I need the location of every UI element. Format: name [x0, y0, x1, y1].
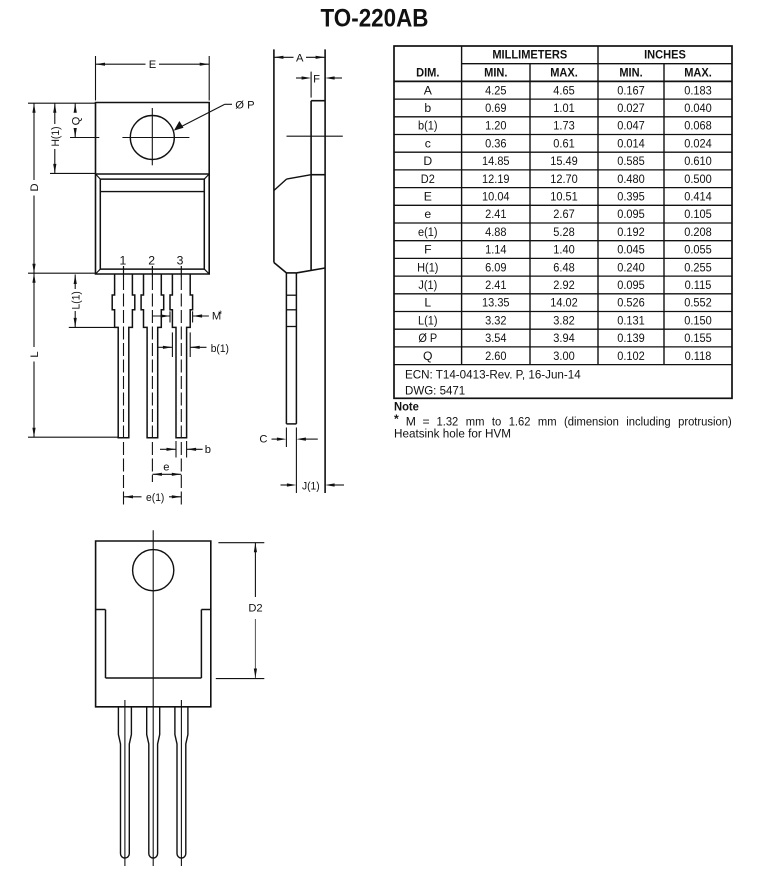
svg-text:3: 3	[177, 254, 184, 268]
svg-text:ECN: T14-0413-Rev. P, 16-Jun-1: ECN: T14-0413-Rev. P, 16-Jun-14	[405, 368, 581, 382]
svg-text:L: L	[424, 296, 431, 310]
svg-text:Q: Q	[70, 116, 82, 125]
svg-text:6.09: 6.09	[485, 260, 507, 274]
svg-text:1.73: 1.73	[553, 119, 575, 133]
back view: lead pin 1	[118, 707, 131, 858]
svg-text:0.102: 0.102	[617, 349, 645, 363]
svg-text:Heatsink hole for HVM: Heatsink hole for HVM	[394, 426, 511, 440]
svg-text:12.19: 12.19	[482, 172, 510, 186]
svg-text:e: e	[424, 207, 431, 221]
svg-text:D2: D2	[421, 172, 435, 186]
svg-text:0.118: 0.118	[685, 349, 712, 363]
front view: hole centerlines	[70, 108, 189, 165]
svg-text:3.54: 3.54	[485, 331, 507, 345]
side view: lead with crimp marks	[286, 273, 296, 424]
svg-text:0.105: 0.105	[684, 207, 712, 221]
svg-text:3.00: 3.00	[553, 349, 575, 363]
svg-text:*: *	[218, 309, 222, 320]
svg-text:0.040: 0.040	[684, 101, 712, 115]
svg-text:b: b	[424, 101, 431, 115]
svg-text:0.095: 0.095	[617, 278, 645, 292]
svg-text:0.500: 0.500	[684, 172, 712, 186]
dimension J(1) (lead to mounting plane)	[281, 480, 345, 492]
svg-text:0.024: 0.024	[684, 136, 712, 150]
dimension M (lead protrusion) with extension lines	[152, 309, 222, 322]
svg-text:3.82: 3.82	[553, 313, 575, 327]
svg-text:INCHES: INCHES	[644, 48, 686, 62]
dimension e(1) (pin 1 to pin 3)	[124, 492, 182, 504]
svg-text:e(1): e(1)	[146, 492, 165, 504]
svg-text:F: F	[313, 74, 320, 86]
svg-text:0.36: 0.36	[485, 136, 507, 150]
svg-text:0.045: 0.045	[617, 243, 645, 257]
svg-text:4.25: 4.25	[485, 83, 507, 97]
svg-text:0.131: 0.131	[617, 313, 645, 327]
svg-text:MAX.: MAX.	[550, 66, 578, 80]
svg-text:3.94: 3.94	[553, 331, 575, 345]
front view: lead pin 2 outline	[141, 274, 164, 438]
svg-text:L: L	[29, 351, 41, 357]
svg-text:0.068: 0.068	[684, 119, 712, 133]
side view: tab outline	[311, 49, 325, 493]
svg-text:2.92: 2.92	[553, 278, 575, 292]
dimension H(1), vertical	[50, 103, 62, 173]
svg-text:DWG: 5471: DWG: 5471	[405, 384, 465, 398]
svg-text:0.69: 0.69	[485, 101, 507, 115]
dimension E (package width) with extension lines	[96, 56, 210, 101]
svg-text:*: *	[394, 412, 399, 426]
back view: lead pin 3	[175, 707, 188, 858]
svg-text:H(1): H(1)	[50, 126, 62, 146]
dimension D (tab top to body bottom), vertical	[29, 103, 41, 273]
svg-text:4.65: 4.65	[553, 83, 575, 97]
svg-text:1: 1	[120, 254, 127, 268]
front view: lead pin 3 outline	[170, 274, 193, 438]
svg-text:c: c	[425, 136, 431, 150]
svg-text:14.85: 14.85	[482, 154, 510, 168]
svg-text:0.526: 0.526	[617, 296, 645, 310]
svg-text:12.70: 12.70	[550, 172, 578, 186]
left horizontal extension lines	[28, 103, 118, 437]
svg-text:e(1): e(1)	[418, 225, 438, 239]
svg-text:E: E	[424, 190, 432, 204]
dimension b(1) with extension lines	[158, 332, 229, 357]
svg-text:0.395: 0.395	[617, 190, 645, 204]
svg-text:Q: Q	[423, 349, 432, 363]
svg-text:mm: mm	[538, 415, 557, 429]
front view: body inner face with chamfered corners and ridge	[96, 174, 210, 274]
dimension L (body bottom to lead tip), vertical	[29, 273, 41, 437]
svg-text:2.67: 2.67	[553, 207, 575, 221]
svg-text:TO-220AB: TO-220AB	[321, 5, 429, 33]
svg-text:D2: D2	[248, 603, 262, 615]
svg-text:L(1): L(1)	[70, 291, 82, 310]
svg-text:0.014: 0.014	[617, 136, 645, 150]
svg-text:1.20: 1.20	[485, 119, 507, 133]
note line 1: M dimension explanation (justified)	[394, 412, 732, 429]
svg-text:MIN.: MIN.	[619, 66, 642, 80]
svg-text:0.095: 0.095	[617, 207, 645, 221]
svg-text:Ø P: Ø P	[235, 99, 254, 111]
dimension Q (tab top to hole center), vertical	[70, 103, 82, 137]
dimension L(1), vertical	[70, 275, 82, 328]
svg-text:F: F	[424, 243, 431, 257]
front view: pin centerlines (dashed)	[124, 266, 182, 505]
svg-text:0.480: 0.480	[617, 172, 645, 186]
back view: vertical centerline	[152, 530, 154, 866]
svg-text:0.027: 0.027	[617, 101, 645, 115]
front view: lead pin 1 outline	[112, 274, 135, 438]
svg-text:0.150: 0.150	[684, 313, 712, 327]
svg-text:0.255: 0.255	[684, 260, 712, 274]
svg-text:D: D	[423, 154, 432, 168]
front view: package outline (tab + body)	[96, 103, 210, 275]
hole diameter label P with leader arrow	[174, 99, 255, 130]
svg-text:0.240: 0.240	[617, 260, 645, 274]
svg-text:MILLIMETERS: MILLIMETERS	[492, 48, 567, 62]
svg-text:including: including	[626, 415, 670, 429]
svg-text:J(1): J(1)	[418, 278, 437, 292]
svg-text:0.610: 0.610	[684, 154, 712, 168]
dimension D2 with extension lines	[216, 543, 264, 679]
svg-text:0.208: 0.208	[684, 225, 712, 239]
svg-text:15.49: 15.49	[550, 154, 578, 168]
svg-text:10.04: 10.04	[482, 190, 510, 204]
back view: lead pin 2	[147, 707, 160, 858]
dimension F (tab thickness)	[296, 72, 342, 98]
svg-text:b(1): b(1)	[211, 343, 230, 355]
svg-text:2.41: 2.41	[485, 278, 507, 292]
svg-text:L(1): L(1)	[418, 313, 438, 327]
svg-text:0.414: 0.414	[684, 190, 712, 204]
svg-text:14.02: 14.02	[550, 296, 578, 310]
dimension table: grid	[394, 46, 732, 398]
svg-text:0.192: 0.192	[617, 225, 645, 239]
svg-text:2.60: 2.60	[485, 349, 507, 363]
dimension A (package depth)	[274, 53, 325, 65]
svg-text:1.01: 1.01	[553, 101, 575, 115]
side view: hole centerline	[287, 135, 343, 137]
svg-text:protrusion): protrusion)	[678, 415, 732, 429]
svg-text:2.41: 2.41	[485, 207, 507, 221]
svg-text:0.115: 0.115	[685, 278, 712, 292]
dimension table: data rows	[417, 83, 712, 363]
svg-text:0.139: 0.139	[617, 331, 645, 345]
svg-text:0.167: 0.167	[617, 83, 645, 97]
svg-text:J(1): J(1)	[302, 480, 320, 492]
svg-text:0.155: 0.155	[684, 331, 712, 345]
back view: package outline	[96, 541, 211, 707]
svg-text:(dimension: (dimension	[564, 415, 619, 429]
front view: pin number labels 1 2 3	[120, 254, 184, 268]
svg-text:2: 2	[148, 254, 155, 268]
dimension C (lead thickness)	[259, 428, 317, 494]
svg-text:10.51: 10.51	[550, 190, 578, 204]
svg-text:Ø P: Ø P	[418, 331, 437, 345]
svg-text:MAX.: MAX.	[684, 66, 712, 80]
svg-text:A: A	[296, 53, 304, 65]
svg-text:13.35: 13.35	[482, 296, 510, 310]
svg-text:1.62: 1.62	[509, 415, 531, 429]
svg-text:0.055: 0.055	[684, 243, 712, 257]
svg-text:A: A	[424, 83, 433, 97]
dimension e (pin pitch)	[152, 461, 181, 476]
svg-text:e: e	[163, 461, 169, 473]
svg-text:b(1): b(1)	[418, 119, 438, 133]
dimension b (lead width) with extension lines	[160, 441, 211, 458]
back view: pin 1 and 3 centerlines	[125, 700, 181, 866]
svg-text:1.40: 1.40	[553, 243, 575, 257]
dimension table: ECN / DWG revision cell	[405, 368, 581, 398]
svg-text:0.61: 0.61	[553, 136, 575, 150]
back view: molded cover cutout (U-shape)	[96, 610, 211, 679]
svg-text:1.14: 1.14	[485, 243, 507, 257]
svg-text:H(1): H(1)	[417, 260, 438, 274]
svg-text:5.28: 5.28	[553, 225, 575, 239]
side view: body outline	[274, 49, 325, 273]
svg-text:0.552: 0.552	[684, 296, 712, 310]
back view: mounting hole	[133, 550, 174, 591]
svg-text:D: D	[29, 183, 41, 191]
svg-text:6.48: 6.48	[553, 260, 575, 274]
svg-text:C: C	[259, 434, 267, 446]
svg-text:0.183: 0.183	[684, 83, 712, 97]
svg-text:0.047: 0.047	[617, 119, 645, 133]
svg-text:4.88: 4.88	[485, 225, 507, 239]
svg-text:MIN.: MIN.	[484, 66, 507, 80]
svg-text:3.32: 3.32	[485, 313, 507, 327]
svg-text:b: b	[205, 444, 211, 456]
svg-text:E: E	[149, 59, 156, 71]
front view: mounting hole (diameter P)	[130, 116, 174, 160]
dimension table: header text	[416, 48, 712, 80]
svg-text:DIM.: DIM.	[416, 66, 439, 80]
svg-text:0.585: 0.585	[617, 154, 645, 168]
